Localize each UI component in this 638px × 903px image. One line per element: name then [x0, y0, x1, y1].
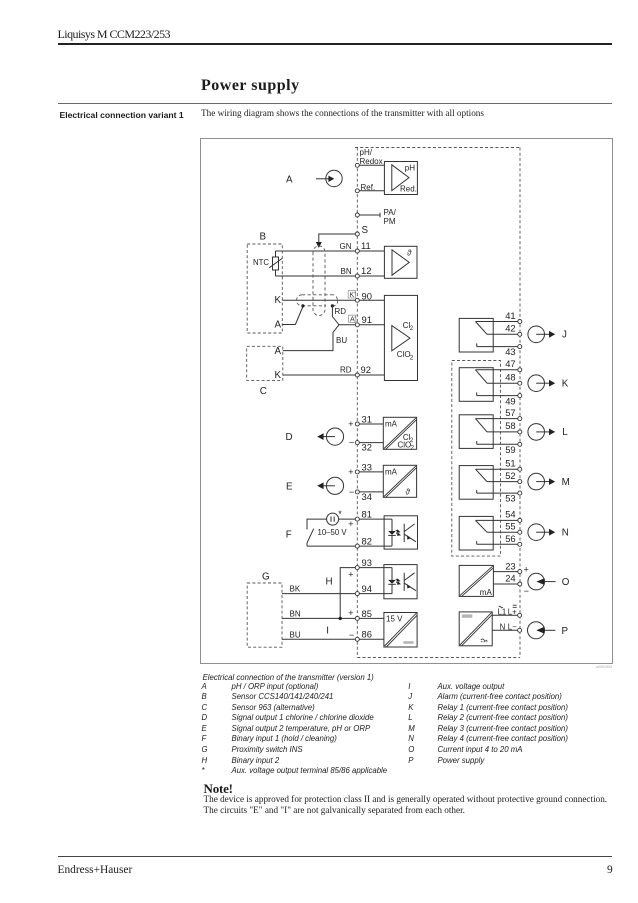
wire BU sensor C to 91: [283, 325, 339, 351]
svg-text:ϑ: ϑ: [405, 487, 410, 496]
svg-text:BU: BU: [290, 630, 301, 639]
switch F (binary input 1): [307, 519, 327, 546]
wire L1 L+: [492, 614, 519, 616]
legend right column: [408, 682, 568, 766]
svg-text:91: 91: [362, 314, 372, 325]
wire 34: [359, 491, 383, 493]
wire source to 81: [339, 518, 385, 520]
legend left column: [202, 682, 388, 777]
svg-text:K: K: [275, 295, 282, 306]
svg-text:S: S: [362, 225, 369, 236]
terminal Ref: [355, 189, 359, 193]
svg-text:pH: pH: [405, 163, 415, 172]
output symbol E: [317, 477, 343, 494]
svg-text:15 V: 15 V: [386, 614, 403, 623]
terminal 33: [355, 470, 359, 474]
terminal S: [355, 232, 359, 236]
terminal 49: [518, 394, 522, 398]
junction screen left: [301, 304, 304, 307]
output symbol L: [528, 424, 555, 441]
svg-text:59: 59: [505, 444, 515, 455]
transmitter dashed boundary top: [355, 147, 520, 149]
svg-text:RD: RD: [340, 366, 352, 375]
terminal 56: [518, 542, 522, 546]
svg-text:ClO: ClO: [397, 350, 411, 359]
svg-text:51: 51: [505, 458, 515, 469]
svg-text:K: K: [275, 370, 282, 381]
footer: [58, 864, 133, 876]
terminal pH/Redox: [355, 163, 359, 167]
note body: [204, 794, 608, 815]
terminal 51: [518, 467, 522, 471]
wire to 82: [307, 545, 384, 547]
wire 24: [493, 583, 519, 585]
svg-text:mA: mA: [385, 467, 398, 476]
svg-text:BK: BK: [290, 585, 301, 594]
amplifier Cl2/ClO2: [384, 295, 417, 380]
boxed pin A': [349, 315, 357, 324]
wire 93 to BN junction: [340, 568, 357, 619]
svg-text:K’: K’: [349, 290, 356, 299]
output symbol K: [528, 375, 555, 392]
svg-text:−: −: [349, 438, 354, 448]
sensor C dashed box: [247, 346, 283, 380]
svg-text:D: D: [286, 432, 293, 443]
terminal 53: [518, 491, 522, 495]
footer rule: [58, 856, 612, 857]
svg-text:PA/: PA/: [384, 208, 397, 217]
header rule: [58, 43, 612, 45]
terminal 23: [518, 570, 522, 574]
converter current input 4-20mA: [459, 565, 493, 597]
terminal 12: [355, 274, 359, 278]
svg-text:+: +: [348, 419, 353, 429]
svg-text:2: 2: [410, 326, 414, 332]
arrow S to shield: [316, 242, 322, 248]
svg-text:A: A: [286, 175, 293, 186]
terminal 42: [518, 332, 522, 336]
ac mark over L1: [499, 606, 503, 608]
terminal 55: [518, 530, 522, 534]
terminal 11: [355, 249, 359, 253]
svg-text:93: 93: [362, 557, 372, 568]
svg-text:−: −: [349, 487, 354, 497]
svg-text:54: 54: [505, 509, 515, 520]
svg-text:mA: mA: [385, 419, 398, 428]
wire pH/Redox terminal to pH amplifier: [359, 164, 384, 166]
svg-text:E: E: [286, 481, 293, 492]
terminal 48: [518, 381, 522, 385]
terminal 54: [518, 518, 522, 522]
terminal 82: [355, 544, 359, 548]
coax screen curl: [333, 301, 338, 306]
svg-text:BN: BN: [341, 267, 352, 276]
svg-text:86: 86: [362, 629, 372, 640]
svg-text:+: +: [348, 570, 353, 580]
wire GN 11: [276, 250, 385, 252]
svg-text:42: 42: [505, 323, 515, 334]
svg-text:+: +: [348, 467, 353, 477]
svg-text:−: −: [524, 586, 529, 596]
terminal 47: [518, 368, 522, 372]
svg-text:48: 48: [505, 372, 515, 383]
svg-text:56: 56: [505, 533, 515, 544]
svg-text:55: 55: [505, 521, 515, 532]
wire A (sensor B) to screen: [282, 307, 303, 325]
svg-text:85: 85: [362, 608, 372, 619]
svg-text:53: 53: [505, 493, 515, 504]
terminal 91: [355, 323, 359, 327]
header: document title: [58, 27, 170, 42]
input symbol O: [528, 573, 556, 590]
svg-text:a0051903: a0051903: [596, 665, 612, 669]
dc mark over L+: [513, 605, 517, 607]
svg-text:49: 49: [505, 395, 515, 406]
svg-text:ϑ: ϑ: [407, 248, 412, 257]
svg-text:31: 31: [362, 413, 372, 424]
svg-text:52: 52: [505, 470, 515, 481]
svg-text:L1: L1: [498, 607, 507, 616]
terminal 85: [355, 616, 359, 620]
wire 31: [359, 423, 383, 425]
svg-text:G: G: [262, 572, 270, 583]
terminal 41: [518, 320, 522, 324]
svg-text:82: 82: [362, 536, 372, 547]
terminal 86: [355, 637, 359, 641]
svg-text:A: A: [275, 320, 282, 331]
wire 33: [359, 471, 383, 473]
terminal 81: [355, 517, 359, 521]
shield capsule horizontal (coax screen): [297, 295, 338, 306]
svg-text:N: N: [562, 528, 569, 539]
svg-text:Redox: Redox: [360, 157, 383, 166]
terminal 32: [355, 441, 359, 445]
svg-text:43: 43: [505, 346, 515, 357]
svg-text:Red.: Red.: [400, 185, 417, 194]
intro text: [201, 108, 484, 118]
svg-text:H: H: [326, 576, 333, 587]
svg-text:−: −: [349, 630, 354, 640]
wire 32: [359, 442, 383, 444]
terminal L1/L+: [518, 613, 522, 617]
svg-text:C: C: [260, 386, 267, 397]
svg-text:2: 2: [410, 355, 414, 361]
input symbol A (pH/ORP input): [316, 170, 342, 186]
svg-text:2: 2: [411, 446, 415, 452]
svg-text:90: 90: [362, 290, 372, 301]
transmitter dashed boundary right: [519, 148, 521, 658]
svg-text:92: 92: [361, 364, 371, 375]
terminal 52: [518, 480, 522, 484]
svg-text:34: 34: [362, 491, 372, 502]
converter mA Cl2/ClO2 (signal output 1): [383, 417, 416, 451]
svg-text:41: 41: [505, 310, 515, 321]
relay N (relay 4): [459, 516, 520, 550]
svg-text:P: P: [562, 626, 569, 637]
wire N L-: [492, 629, 519, 631]
svg-text:11: 11: [361, 240, 371, 251]
junction screen right: [331, 304, 334, 307]
converter mA temperature (signal output 2): [383, 465, 416, 497]
note heading: [204, 781, 233, 797]
wire RD 92: [283, 374, 385, 376]
junction BN/93: [339, 617, 342, 620]
svg-text:94: 94: [362, 583, 372, 594]
svg-text:33: 33: [362, 461, 372, 472]
svg-text:57: 57: [505, 407, 515, 418]
svg-text:A’: A’: [350, 315, 356, 324]
output symbol D: [317, 428, 343, 445]
relay K (relay 1): [459, 368, 520, 402]
voltage source 10-50V: [327, 513, 339, 525]
svg-text:L+: L+: [508, 607, 517, 616]
proximity switch G dashed box: [247, 583, 282, 647]
svg-text:B: B: [260, 232, 267, 243]
boxed pin K': [348, 290, 356, 299]
svg-text:32: 32: [362, 442, 372, 453]
terminal 24: [518, 582, 522, 586]
svg-text:N: N: [500, 622, 506, 631]
relay module dashed box: [452, 361, 501, 557]
terminal N/L-: [518, 628, 522, 632]
wire Ref terminal to pH amplifier: [359, 190, 384, 192]
svg-text:24: 24: [505, 573, 515, 584]
amplifier pH/Redox: [384, 162, 417, 195]
terminal 93: [355, 566, 359, 570]
svg-text:J: J: [562, 330, 567, 341]
wire S to shield: [319, 234, 358, 244]
tick PA/PM: [379, 213, 381, 217]
transmitter dashed boundary left (terminal line): [356, 148, 358, 658]
sensor B dashed box: [247, 244, 282, 333]
output symbol J: [528, 326, 555, 343]
terminal 94: [355, 592, 359, 596]
wire K 90: [282, 299, 384, 301]
terminal 92: [355, 373, 359, 377]
svg-text:I: I: [326, 625, 329, 636]
output symbol M: [528, 473, 555, 490]
svg-text:O: O: [562, 577, 570, 588]
output symbol N: [528, 524, 555, 541]
svg-text:L−: L−: [508, 622, 517, 631]
wire BU 86: [282, 638, 384, 640]
section title: [201, 77, 300, 95]
optocoupler binary input 1: [384, 516, 417, 549]
svg-text:BU: BU: [336, 336, 347, 345]
terminal 57: [518, 417, 522, 421]
svg-text:10–50 V: 10–50 V: [318, 528, 348, 537]
shield capsule vertical (cable B screen): [313, 246, 325, 316]
svg-text:mA: mA: [480, 588, 493, 597]
terminal 31: [355, 422, 359, 426]
relay L (relay 2): [459, 415, 520, 449]
relay M (relay 3): [459, 466, 520, 500]
wire 23: [493, 571, 519, 573]
svg-text:NTC: NTC: [253, 258, 269, 267]
thin rule: [58, 103, 612, 104]
wire PA/PM stub: [359, 214, 380, 216]
svg-text:ClO: ClO: [398, 441, 412, 450]
svg-text:12: 12: [361, 265, 371, 276]
svg-text:PM: PM: [384, 217, 396, 226]
svg-text:+: +: [524, 564, 529, 574]
terminal 59: [518, 442, 522, 446]
svg-text:BN: BN: [290, 609, 301, 618]
svg-text:23: 23: [505, 560, 515, 571]
wire 93 into optocoupler: [359, 567, 392, 569]
svg-text:+: +: [348, 608, 353, 618]
thermistor NTC: [269, 251, 282, 276]
caption: figure caption: [203, 673, 374, 682]
svg-text:47: 47: [505, 358, 515, 369]
svg-text:*: *: [338, 509, 342, 519]
svg-text:81: 81: [362, 508, 372, 519]
svg-text:RD: RD: [335, 307, 347, 316]
diagram outer frame: [201, 139, 613, 664]
svg-text:M: M: [562, 477, 570, 488]
svg-text:+: +: [348, 519, 353, 529]
terminal 43: [518, 345, 522, 349]
terminal 34: [355, 490, 359, 494]
transmitter dashed boundary bottom: [357, 657, 520, 659]
wire RD screen to terminal 91: [332, 306, 384, 325]
relay J (alarm): [459, 318, 520, 352]
power supply unit box: [459, 612, 492, 646]
terminal PA/PM: [355, 213, 359, 217]
svg-text:A: A: [275, 346, 282, 357]
svg-text:F: F: [286, 529, 292, 540]
optocoupler binary input 2: [384, 565, 417, 599]
wire BN 12: [276, 275, 385, 277]
wire BN 85: [282, 617, 384, 619]
amplifier temperature: [384, 246, 417, 278]
input symbol P: [528, 622, 556, 639]
terminal 90: [355, 298, 359, 302]
variant label: [60, 110, 184, 120]
svg-text:L: L: [562, 427, 568, 438]
svg-text:GN: GN: [340, 242, 352, 251]
svg-text:K: K: [562, 379, 569, 390]
svg-text:58: 58: [505, 420, 515, 431]
aux supply 15V box: [384, 613, 417, 648]
terminal 58: [518, 430, 522, 434]
wire BK 94: [282, 593, 392, 595]
